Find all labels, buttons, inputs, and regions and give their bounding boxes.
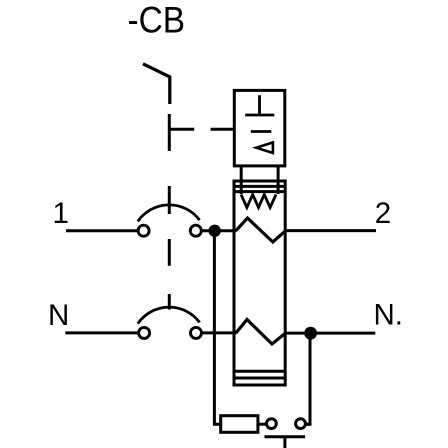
wire drop left from node pole1 bbox=[214, 236, 219, 424]
svg-text:N: N bbox=[48, 299, 69, 332]
svg-text:N.: N. bbox=[374, 298, 404, 331]
contact actuator bar bbox=[265, 435, 306, 438]
contact circle pole1 right bbox=[190, 225, 201, 236]
wire terminal 2 bbox=[286, 229, 376, 232]
contact arc pole N bbox=[138, 307, 200, 324]
trip unit box U1 bbox=[234, 90, 284, 165]
connector links between trip unit and SPD bbox=[241, 166, 278, 194]
svg-text:-CB: -CB bbox=[128, 0, 186, 40]
svg-text:2: 2 bbox=[375, 197, 391, 230]
resistor R bbox=[221, 416, 258, 433]
wire terminal 1 bbox=[66, 229, 137, 232]
svg-text:1: 1 bbox=[53, 197, 69, 230]
breaker handle bbox=[143, 64, 170, 104]
contact circle poleN left bbox=[139, 327, 150, 338]
wire resistor to contact bbox=[258, 423, 267, 426]
thermal disconnect element (zigzag) bbox=[241, 195, 276, 208]
terminal hatch top bbox=[234, 186, 285, 191]
trip unit symbol bbox=[245, 95, 274, 153]
varistor zigzag L bbox=[236, 218, 286, 242]
contact circle poleN right bbox=[191, 327, 202, 338]
wire poleN to SPD bbox=[202, 331, 237, 334]
wire terminal N. bbox=[286, 332, 376, 335]
contact actuator stem bbox=[283, 437, 286, 448]
signal contact circle right bbox=[296, 419, 306, 429]
junction node N. bbox=[304, 327, 317, 340]
contact circle pole1 left bbox=[138, 225, 149, 236]
junction node pole1 bbox=[209, 225, 221, 237]
mechanical linkage horizontal (dashed) bbox=[169, 128, 233, 131]
mechanical linkage vertical (dashed) bbox=[168, 114, 171, 310]
SPD cartridge box bbox=[234, 181, 285, 385]
terminal hatch bottom bbox=[234, 371, 285, 378]
contact arc pole 1 bbox=[138, 205, 200, 222]
wire contact to right drop bbox=[306, 423, 310, 426]
wire terminal N bbox=[65, 331, 137, 334]
wire pole1 to SPD bbox=[202, 229, 237, 232]
signal contact circle left bbox=[267, 419, 277, 429]
wire drop right from node N. bbox=[306, 339, 310, 424]
varistor zigzag N bbox=[236, 320, 286, 345]
